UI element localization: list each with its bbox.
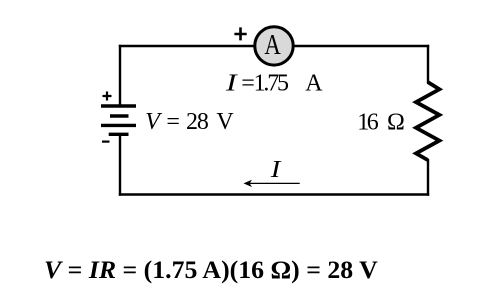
ammeter plus sign bbox=[234, 27, 246, 40]
wire right bottom segment bbox=[427, 159, 429, 196]
svg-text:V: V bbox=[216, 109, 234, 135]
svg-text:1.75: 1.75 bbox=[254, 71, 289, 97]
wire bottom bbox=[119, 193, 429, 195]
battery minus sign bbox=[102, 141, 110, 143]
resistor R 16 ohm zigzag bbox=[416, 82, 439, 160]
svg-text:Ω: Ω bbox=[387, 109, 405, 135]
battery plus sign bbox=[103, 92, 112, 101]
wire left top segment bbox=[119, 45, 121, 105]
svg-text:16: 16 bbox=[357, 109, 379, 135]
current arrow line bbox=[248, 182, 300, 184]
svg-text:V: V bbox=[145, 109, 162, 135]
ammeter circle U1 bbox=[255, 27, 293, 65]
battery plate 3 long bbox=[101, 124, 136, 127]
wire left bottom segment bbox=[119, 135, 121, 196]
current arrow head bbox=[244, 180, 251, 186]
svg-text:28: 28 bbox=[186, 109, 209, 135]
svg-text:V = IR = (1.75 A)(16 Ω) = 28 V: V = IR = (1.75 A)(16 Ω) = 28 V bbox=[44, 255, 378, 284]
battery plate 4 short bottom bbox=[109, 133, 129, 136]
svg-text:A: A bbox=[305, 71, 323, 97]
svg-text:=: = bbox=[166, 109, 180, 135]
svg-text:I: I bbox=[270, 155, 282, 182]
wire top bbox=[119, 45, 429, 47]
wire right top segment bbox=[427, 45, 429, 83]
battery plate 1 long top bbox=[101, 104, 136, 107]
svg-text:I: I bbox=[225, 70, 239, 96]
battery plate 2 short bbox=[110, 114, 129, 117]
svg-text:A: A bbox=[264, 29, 281, 61]
